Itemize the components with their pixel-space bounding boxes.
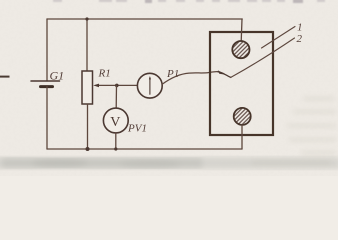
resistor R1 (potentiometer body): [82, 71, 93, 104]
top-edge cropped text smudges: [53, 0, 325, 3]
leader line 2: [231, 38, 295, 77]
node: junction top rail / R1: [85, 17, 88, 20]
wire: top rail: [47, 18, 242, 20]
node: junction bottom rail / R1: [86, 147, 90, 151]
wire: probe lead from ammeter (S-curve): [162, 72, 218, 85]
wiper arrow of R1: [98, 84, 138, 86]
wire: R1 bottom lead: [87, 104, 89, 149]
probe hook tip: [218, 72, 231, 78]
wire: PV1 bottom lead: [115, 133, 117, 149]
svg-text:2: 2: [297, 33, 303, 45]
voltmeter PV1: [103, 108, 128, 133]
electrode 1 (top contact, hatched): [232, 41, 249, 58]
node: junction wiper wire / PV1: [115, 84, 119, 88]
wire: PV1 top lead: [115, 85, 117, 108]
wire: bottom rail: [47, 148, 242, 150]
svg-text:V: V: [110, 115, 120, 130]
ammeter P1: [137, 73, 162, 98]
scan shadow band at bottom: [0, 157, 338, 169]
node: junction bottom rail / PV1: [114, 147, 117, 150]
svg-text:PV1: PV1: [127, 123, 147, 135]
wire: left vertical lower (battery to bottom rail): [46, 87, 48, 149]
electrode (bottom contact, hatched): [234, 108, 251, 125]
left edge dash mark: [0, 76, 10, 78]
wire: left vertical upper (battery to top rail): [46, 19, 48, 81]
wire: R1 top lead: [86, 19, 88, 71]
vessel / plate rectangle: [210, 32, 273, 135]
leader line 1: [262, 27, 296, 49]
battery G1: [31, 80, 60, 82]
ghost text bleed bottom-right: [252, 97, 336, 165]
svg-text:1: 1: [297, 22, 303, 34]
paper background: [0, 0, 338, 176]
wire: bottom electrode lead: [241, 125, 243, 149]
svg-text:R1: R1: [98, 68, 111, 80]
wire: top electrode lead: [240, 19, 243, 42]
svg-text:G1: G1: [50, 69, 65, 83]
